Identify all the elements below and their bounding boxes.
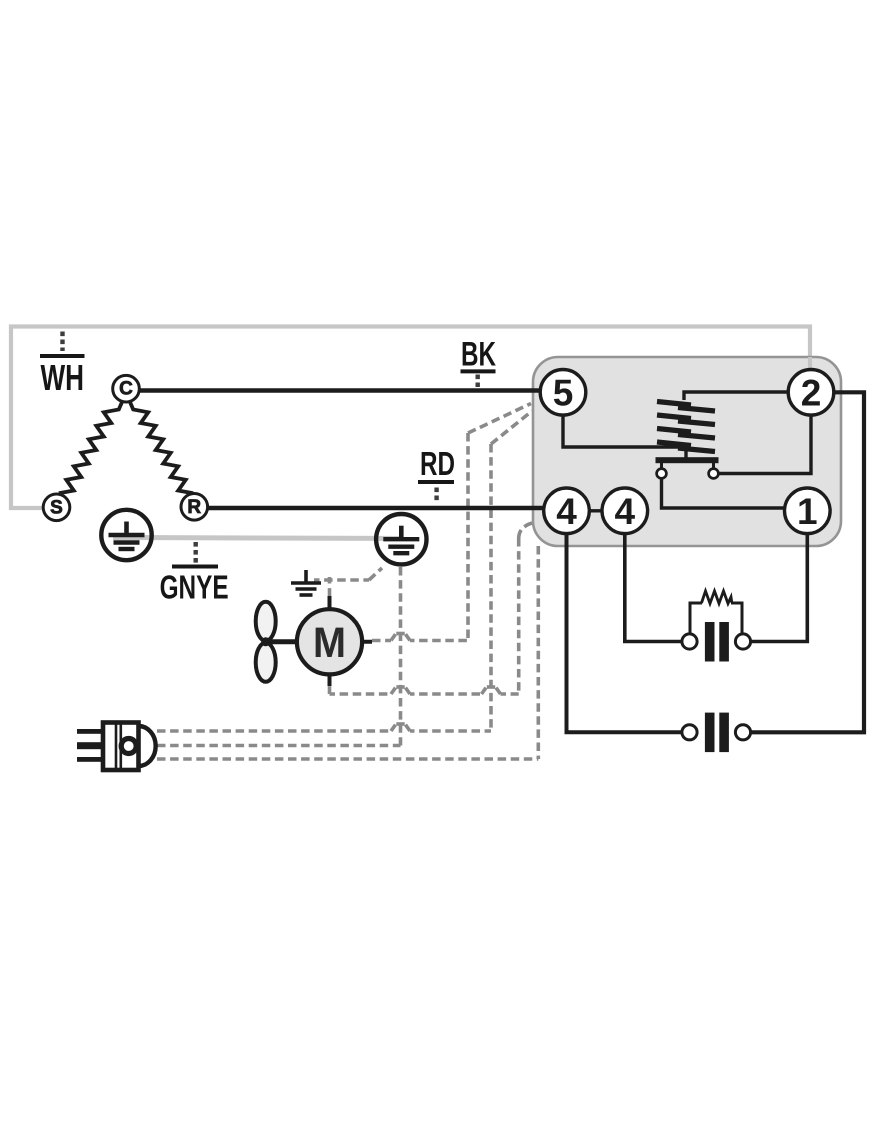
svg-text:BK: BK — [461, 335, 496, 373]
svg-text:WH: WH — [41, 357, 85, 398]
svg-text:4: 4 — [556, 491, 577, 532]
svg-text:M: M — [313, 619, 346, 667]
svg-text:GNYE: GNYE — [160, 569, 229, 606]
svg-text:1: 1 — [797, 491, 818, 532]
svg-text:2: 2 — [801, 372, 822, 413]
svg-text:RD: RD — [420, 445, 455, 482]
svg-text:4: 4 — [615, 491, 636, 532]
svg-text:S: S — [50, 497, 63, 518]
svg-text:R: R — [187, 497, 201, 518]
svg-text:5: 5 — [553, 372, 574, 413]
svg-text:C: C — [119, 379, 133, 400]
